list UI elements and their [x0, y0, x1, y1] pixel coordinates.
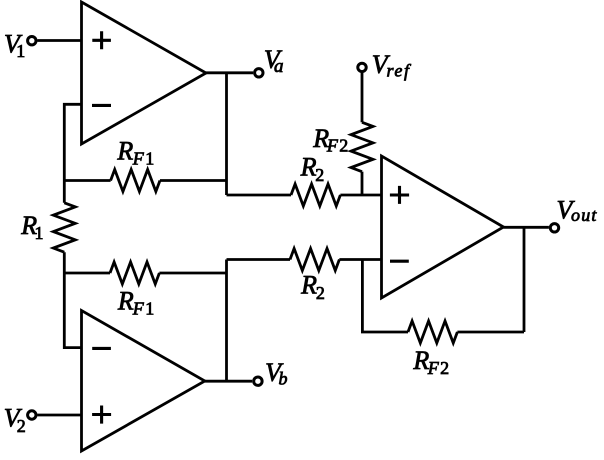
svg-text:2: 2: [17, 416, 26, 436]
svg-text:R: R: [300, 153, 317, 182]
svg-text:R: R: [116, 136, 133, 165]
svg-text:1: 1: [145, 298, 154, 318]
svg-text:2: 2: [440, 358, 449, 378]
svg-text:b: b: [279, 369, 288, 389]
svg-text:R: R: [117, 286, 134, 315]
svg-text:a: a: [274, 56, 284, 77]
svg-text:F: F: [326, 135, 339, 155]
svg-text:1: 1: [35, 223, 44, 243]
svg-text:2: 2: [339, 135, 348, 155]
svg-text:F: F: [132, 298, 145, 318]
svg-text:F: F: [132, 148, 145, 168]
svg-text:2: 2: [316, 283, 325, 303]
svg-text:ref: ref: [387, 61, 413, 81]
svg-text:1: 1: [145, 148, 154, 168]
svg-text:2: 2: [315, 165, 324, 185]
svg-text:R: R: [300, 271, 317, 300]
svg-text:1: 1: [16, 41, 25, 61]
svg-text:out: out: [571, 205, 598, 225]
svg-text:F: F: [427, 358, 440, 378]
